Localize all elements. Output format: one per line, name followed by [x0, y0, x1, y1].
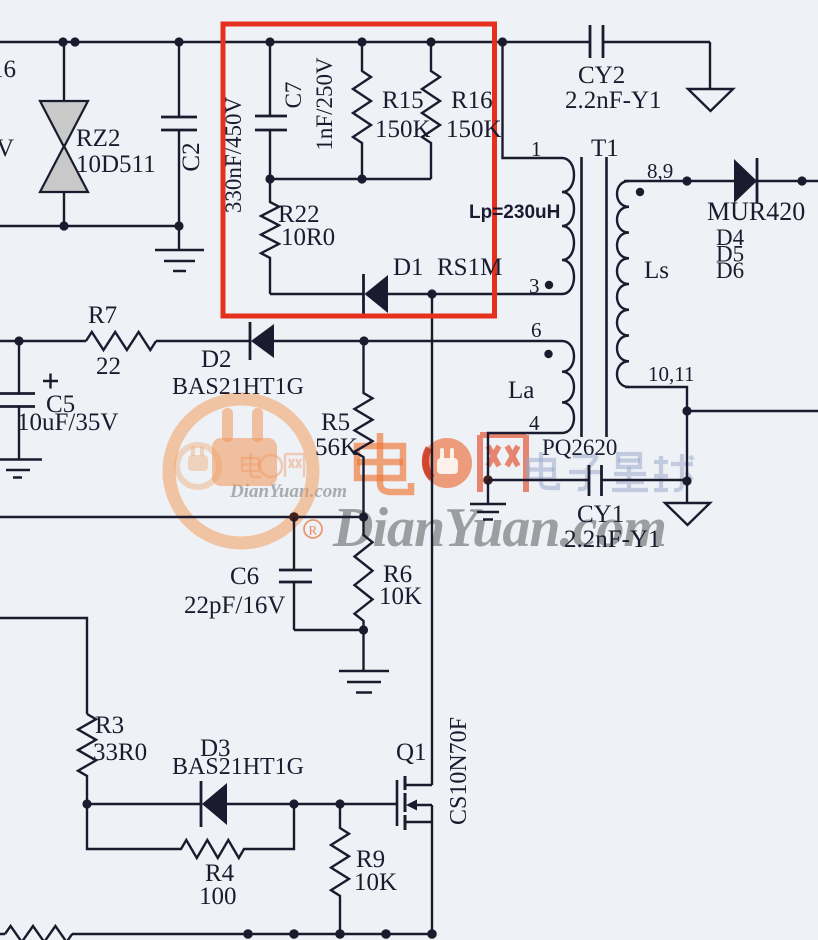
- watermark logo circle glyph: [422, 438, 472, 488]
- svg-text:56K: 56K: [315, 434, 358, 461]
- ground below R6: [339, 630, 389, 693]
- ground below pin4: [470, 480, 506, 520]
- svg-text:R16: R16: [451, 87, 493, 114]
- svg-text:10R0: 10R0: [281, 224, 335, 251]
- wire 10,11: [625, 387, 818, 411]
- svg-text:100: 100: [199, 883, 237, 910]
- svg-text:10,11: 10,11: [648, 362, 694, 386]
- svg-text:10uF/35V: 10uF/35V: [17, 409, 118, 436]
- svg-text:T1: T1: [591, 135, 619, 162]
- svg-text:D6: D6: [716, 258, 744, 283]
- watermark big char 网: [480, 435, 526, 492]
- resistor R3: [78, 714, 96, 804]
- node dots lower bus: [59, 221, 183, 230]
- transformer aux La: [562, 341, 574, 433]
- svg-text:R5: R5: [321, 409, 350, 436]
- svg-text:RZ2: RZ2: [76, 125, 120, 152]
- svg-text:6: 6: [531, 318, 542, 342]
- svg-text:1nF/250V: 1nF/250V: [312, 57, 337, 151]
- svg-text:CY1: CY1: [577, 501, 624, 528]
- phase dot Ls: [636, 188, 644, 196]
- transformer core T1: [582, 157, 607, 437]
- capacitor CY2: [590, 25, 603, 58]
- wire snubber node: [270, 178, 431, 180]
- ground below C5: [0, 460, 42, 478]
- svg-text:MUR420: MUR420: [707, 197, 805, 226]
- wire CY2 to earth: [709, 42, 711, 89]
- svg-text:10K: 10K: [354, 869, 397, 896]
- diode D3: [201, 781, 227, 827]
- node pin4/CY1: [483, 475, 493, 485]
- watermark registered mark: [304, 520, 322, 538]
- watermark big plug: [212, 408, 277, 486]
- svg-text:RS1M: RS1M: [437, 254, 502, 281]
- diode MUR420: [734, 158, 818, 203]
- earth chassis bottom: [665, 503, 710, 525]
- svg-text:R7: R7: [88, 302, 117, 329]
- mosfet Q1: [397, 776, 432, 830]
- capacitor CY1: [488, 465, 687, 496]
- svg-text:150K: 150K: [446, 116, 502, 143]
- svg-text:16: 16: [0, 56, 16, 83]
- svg-text:PQ2620: PQ2620: [542, 435, 617, 460]
- watermark big char 电: [357, 433, 411, 492]
- resistor R16: [422, 42, 440, 179]
- earth chassis top: [688, 89, 733, 111]
- transformer primary Lp: [562, 158, 574, 294]
- wire to CY1 right: [686, 411, 688, 503]
- resistor R4 bypass: [87, 804, 294, 858]
- source column: [431, 822, 433, 934]
- svg-text:BAS21HT1G: BAS21HT1G: [172, 754, 304, 780]
- svg-text:La: La: [508, 377, 534, 404]
- wire snubber bottom: [270, 293, 363, 295]
- svg-text:1: 1: [531, 137, 542, 161]
- node dots top bus: [58, 37, 507, 46]
- svg-text:10D511: 10D511: [76, 151, 156, 178]
- svg-text:10K: 10K: [379, 583, 422, 610]
- watermark small ring with plug: [177, 445, 219, 487]
- resistor R5: [355, 341, 373, 517]
- svg-text:Q1: Q1: [396, 739, 427, 766]
- svg-text:CS10N70F: CS10N70F: [446, 717, 472, 825]
- resistor R15: [353, 42, 371, 179]
- wire pin4: [488, 433, 562, 480]
- svg-text:BAS21HT1G: BAS21HT1G: [172, 374, 304, 400]
- svg-text:33R0: 33R0: [93, 739, 147, 766]
- diode D1: [364, 274, 563, 314]
- svg-text:3: 3: [529, 274, 540, 298]
- wire R7/D2 rail: [0, 340, 562, 342]
- red highlight box: [223, 24, 495, 316]
- svg-text:C6: C6: [230, 563, 259, 590]
- capacitor C2: [161, 42, 197, 226]
- node dots bottom bus: [243, 929, 437, 939]
- wire gate rail: [87, 803, 397, 805]
- svg-text:22pF/16V: 22pF/16V: [184, 592, 285, 619]
- resistor R9: [331, 804, 349, 934]
- svg-text:8,9: 8,9: [647, 159, 673, 183]
- drain column: [431, 294, 433, 785]
- svg-text:Lp=230uH: Lp=230uH: [469, 202, 560, 223]
- resistor R22: [261, 179, 279, 294]
- varistor RZ2: [40, 42, 88, 226]
- svg-text:D2: D2: [201, 346, 232, 373]
- svg-text:D1: D1: [393, 254, 424, 281]
- svg-text:CY2: CY2: [578, 62, 625, 89]
- node D1 anode / drain: [427, 289, 436, 298]
- svg-text:150K: 150K: [375, 116, 431, 143]
- watermark small brand text 电源网: [242, 453, 304, 477]
- wire R3 feed: [0, 618, 87, 714]
- svg-text:C2: C2: [178, 142, 205, 171]
- svg-text:R15: R15: [382, 87, 424, 114]
- watermark blue 电子星球: [528, 452, 693, 490]
- svg-text:4: 4: [529, 411, 540, 435]
- svg-text:2.2nF-Y1: 2.2nF-Y1: [564, 526, 661, 553]
- svg-text:330nF/450V: 330nF/450V: [221, 96, 246, 213]
- phase dot pin3: [545, 281, 553, 289]
- svg-text:22: 22: [96, 353, 121, 380]
- phase dot La: [544, 350, 552, 358]
- ground below C2: [155, 226, 204, 271]
- svg-text:R: R: [309, 523, 318, 538]
- capacitor C5: [0, 341, 58, 459]
- capacitor C6: [279, 517, 364, 630]
- svg-text:C7: C7: [281, 82, 306, 109]
- wire pin1 drop: [503, 42, 563, 158]
- wire bottom bus: [0, 933, 432, 935]
- svg-text:Ls: Ls: [644, 257, 669, 284]
- svg-text:2.2nF-Y1: 2.2nF-Y1: [565, 87, 662, 114]
- capacitor C7: [255, 42, 287, 179]
- resistor sense bottom: [5, 926, 72, 940]
- resistor R7: [86, 332, 156, 350]
- wire top bus: [0, 41, 710, 43]
- wire mid rail: [0, 516, 364, 518]
- wire lower bus left: [0, 225, 179, 227]
- resistor R6: [355, 517, 373, 630]
- WATERMARKS: [169, 399, 693, 559]
- transformer secondary Ls: [617, 181, 629, 387]
- svg-text:V: V: [0, 135, 14, 162]
- watermark big ring: [169, 399, 313, 543]
- wire 8,9: [624, 180, 734, 182]
- svg-text:R3: R3: [95, 712, 124, 739]
- diode D2: [250, 322, 274, 360]
